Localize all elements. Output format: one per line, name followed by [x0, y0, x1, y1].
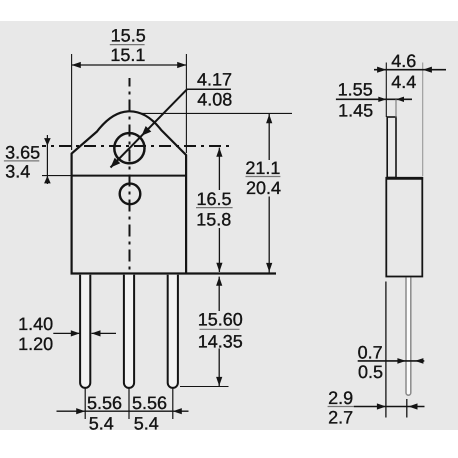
side view body top thick edge	[386, 177, 424, 180]
dim 0.7/0.5 left arrowhead (points right)	[397, 358, 406, 364]
dim 15.5/15.1 dimension line	[72, 64, 187, 66]
label 15.60 over 14.35	[198, 309, 243, 351]
dim 15.60/14.35 top arrowhead	[216, 277, 222, 286]
dim 15.5/15.1 left extension line	[71, 54, 73, 150]
label 15.60 over 14.35 background mask	[197, 311, 245, 349]
svg-text:5.56: 5.56	[132, 393, 167, 413]
dim 16.5/15.8 bottom arrowhead	[216, 263, 222, 272]
svg-text:4.08: 4.08	[197, 90, 232, 110]
svg-text:21.1: 21.1	[245, 158, 280, 178]
label 15.5 over 15.1	[110, 25, 145, 65]
dim 5.56/5.4 dimension line (doubles as fraction bars)	[57, 410, 189, 412]
dim 15.5/15.1 left arrowhead	[72, 62, 81, 68]
svg-text:14.35: 14.35	[198, 332, 243, 352]
svg-text:2.9: 2.9	[328, 388, 353, 408]
side view body	[386, 178, 422, 277]
dim 1.40/1.20 right arrow line	[92, 332, 117, 334]
label 4.6 over 4.4	[391, 51, 416, 92]
dim 1.55/1.45 right arrowhead (points left)	[396, 97, 404, 102]
dim 0.7/0.5 right arrowhead (points left)	[415, 358, 424, 364]
dim 1.40/1.20 left arrowhead (points right)	[71, 330, 80, 336]
fraction bar 15.60/14.35	[200, 328, 240, 330]
dim 15.5/15.1 right extension line	[185, 54, 187, 153]
svg-text:15.1: 15.1	[110, 45, 145, 65]
package bottom edge with right extension	[71, 272, 277, 274]
dim 15.5/15.1 right arrowhead	[177, 62, 186, 68]
svg-text:15.60: 15.60	[198, 309, 243, 329]
package body outline (front view)	[72, 111, 187, 272]
vertical center line	[129, 78, 131, 272]
dim 4.6/4.4 right arrowhead (points left)	[423, 67, 432, 73]
dim 3.65/3.4 vertical line	[46, 135, 48, 184]
svg-text:3.65: 3.65	[5, 142, 40, 162]
dim 0.7/0.5 dimension line with fraction bar	[358, 360, 425, 362]
lead tip extension line (right)	[180, 386, 229, 388]
lead 1 (front)	[80, 275, 90, 388]
dim 2.9/2.7 left arrowhead (points right)	[377, 403, 386, 409]
mounting hole (big)	[114, 133, 144, 163]
dim 5.56 right arrowhead (points left)	[173, 408, 182, 414]
svg-text:5.4: 5.4	[89, 414, 114, 434]
dim 4.6/4.4 left arrowhead (points right)	[377, 67, 386, 73]
dim 21.1/20.4 top arrowhead	[266, 114, 272, 123]
dim 4.6/4.4 right extension line (long gray)	[422, 63, 424, 177]
tab separation line across package	[72, 175, 187, 177]
horizontal center line through hole	[42, 145, 230, 147]
dim 2.9/2.7 dimension line	[328, 406, 354, 408]
svg-text:5.56: 5.56	[87, 393, 122, 413]
lead center extension line 3	[172, 389, 174, 420]
side view tab	[387, 117, 396, 178]
svg-text:15.5: 15.5	[111, 25, 146, 45]
label 1.40 over 1.20	[18, 314, 53, 354]
label 21.1 over 20.4 background mask	[244, 160, 282, 197]
dim 1.40/1.20 left arrow line	[53, 332, 80, 334]
label 16.5 over 15.8 background mask	[195, 190, 234, 228]
side view lead	[406, 278, 411, 396]
dim 15.60/14.35 bottom arrowhead	[216, 377, 222, 386]
leader upper arrowhead at hole edge	[142, 126, 152, 136]
dim 21.1/20.4 dimension line	[268, 114, 270, 273]
labels 5.56 5.56	[87, 393, 167, 434]
lead 2 (front)	[124, 275, 134, 388]
fraction bar 21.1/20.4	[246, 176, 281, 178]
lead 3 (front)	[168, 275, 178, 388]
svg-text:4.4: 4.4	[391, 72, 416, 92]
dim 1.55/1.45 dimension line with fraction bar	[336, 98, 412, 100]
tab right extension stub	[395, 99, 397, 117]
dim 2.9/2.7 dimension line right part	[354, 406, 425, 408]
dim 2.9/2.7 right arrowhead (points left)	[409, 403, 418, 409]
svg-text:0.5: 0.5	[358, 362, 383, 382]
label 4.17 over 4.08	[197, 69, 232, 109]
dim 3.65/3.4 lower arrowhead (points up)	[44, 176, 51, 184]
dim 4.6/4.4 dimension line	[374, 69, 446, 71]
svg-text:1.40: 1.40	[18, 314, 53, 334]
dim 1.55/1.45 left arrowhead (points right)	[378, 97, 386, 102]
svg-text:16.5: 16.5	[196, 189, 231, 209]
svg-text:1.45: 1.45	[338, 101, 373, 121]
dim 21.1/20.4 bottom arrowhead	[266, 263, 272, 272]
svg-text:15.8: 15.8	[196, 209, 231, 229]
dim 2.9/2.7 body-edge extension line	[385, 282, 387, 418]
dim 21.1/20.4 top extension line	[142, 112, 292, 114]
dim 2.9/2.7 lead extension line	[406, 399, 408, 418]
dim 5.56 left arrowhead (points right)	[76, 408, 85, 414]
dim 15.60/14.35 dimension line	[218, 277, 220, 386]
svg-text:4.17: 4.17	[197, 69, 232, 89]
hole diameter leader line 4.17/4.08	[111, 89, 188, 167]
label 2.9 over 2.7	[328, 388, 353, 428]
dim 16.5/15.8 top arrowhead	[216, 148, 222, 157]
svg-text:20.4: 20.4	[246, 178, 281, 198]
svg-text:2.7: 2.7	[328, 408, 353, 428]
fraction bar 3.65/3.4	[4, 160, 39, 162]
tab line left extension	[42, 175, 72, 177]
dim 16.5/15.8 dimension line	[218, 148, 220, 272]
fraction bar 15.5/15.1	[110, 44, 145, 46]
lead center extension line 1	[84, 389, 86, 420]
svg-text:0.7: 0.7	[358, 343, 383, 363]
svg-text:1.55: 1.55	[338, 80, 373, 100]
svg-text:4.6: 4.6	[391, 51, 416, 71]
fraction bar 4.17/4.08 (leader horizontal)	[187, 88, 231, 90]
svg-text:5.4: 5.4	[134, 414, 159, 434]
svg-text:3.4: 3.4	[5, 161, 30, 181]
label 21.1 over 20.4	[245, 158, 281, 198]
dim 1.40/1.20 right arrowhead (points left)	[92, 330, 101, 336]
svg-text:1.20: 1.20	[18, 334, 53, 354]
label 3.65 over 3.4	[5, 142, 40, 181]
leader lower arrowhead at line end	[111, 158, 121, 168]
dim 3.65/3.4 upper arrowhead (points down)	[44, 138, 51, 146]
dim 4.6/4.4 left extension line	[385, 63, 387, 118]
lead center extension line 2	[128, 389, 130, 420]
label 16.5 over 15.8	[196, 189, 231, 229]
fraction bar 16.5/15.8	[196, 207, 233, 209]
label 0.7 over 0.5	[358, 343, 383, 383]
label 1.55 over 1.45	[338, 80, 373, 121]
small hole	[120, 184, 141, 205]
